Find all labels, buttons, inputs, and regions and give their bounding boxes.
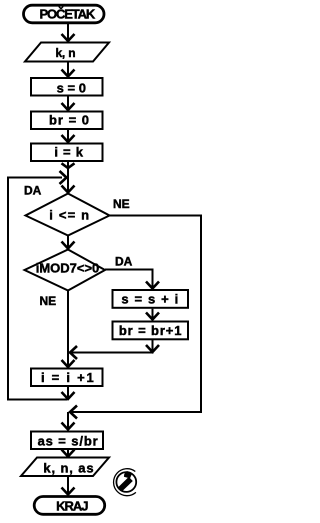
wire input to s=0 xyxy=(62,62,75,77)
svg-text:DA: DA xyxy=(24,184,42,198)
label DA (loop entry) xyxy=(24,184,42,198)
wire s=s+i to br=br+1 xyxy=(146,309,159,320)
process br = 0 xyxy=(31,112,103,130)
svg-text:KRAJ: KRAJ xyxy=(56,499,88,514)
svg-text:NE: NE xyxy=(113,197,130,211)
wire i=i+1 down to loop-back xyxy=(62,386,75,399)
terminal KRAJ xyxy=(34,497,105,515)
wire D2 DA branch to s=s+i xyxy=(105,270,159,289)
svg-text:s = s + i: s = s + i xyxy=(121,292,179,307)
svg-text:br = br+1: br = br+1 xyxy=(119,323,183,338)
wire i=k to loop junction and decision D1 xyxy=(62,162,75,193)
wire start to input xyxy=(62,24,75,41)
svg-text:i = i +1: i = i +1 xyxy=(41,370,95,385)
decision D1 i <= n xyxy=(26,194,110,236)
io parallelogram k, n, as xyxy=(21,458,109,477)
wire s=0 to br=0 xyxy=(62,97,75,111)
label DA (D2 exit right) xyxy=(115,254,133,268)
decision D2 iMOD7<>0 xyxy=(25,250,106,291)
process i = k xyxy=(31,144,103,162)
wire NE branch right and down xyxy=(62,216,202,430)
process as = s/br xyxy=(31,432,103,450)
logo icon circle xyxy=(114,469,137,496)
wire as to output xyxy=(62,450,75,457)
io parallelogram k,n xyxy=(25,43,109,62)
wire output to KRAJ xyxy=(62,477,75,495)
loop-back wire left side xyxy=(8,171,67,400)
wire D2 NE branch down to i=i+1 xyxy=(62,291,75,368)
svg-text:i <= n: i <= n xyxy=(49,208,90,223)
wire br=0 to i=k xyxy=(62,130,75,142)
svg-text:iMOD7<>0: iMOD7<>0 xyxy=(36,260,100,275)
wire br=br+1 down and left to main line xyxy=(70,340,159,359)
logo icon glyph xyxy=(120,471,132,489)
process i = i +1 xyxy=(31,369,103,387)
wire D1 to D2 xyxy=(62,235,75,249)
svg-text:POČETAK: POČETAK xyxy=(40,7,96,22)
process br = br+1 xyxy=(113,322,189,340)
process s = 0 xyxy=(31,78,103,96)
svg-text:as = s/br: as = s/br xyxy=(38,434,99,449)
svg-text:br = 0: br = 0 xyxy=(49,113,90,128)
label NE (D1 exit right) xyxy=(113,197,130,211)
svg-text:k, n, as: k, n, as xyxy=(43,460,94,475)
svg-text:DA: DA xyxy=(115,254,133,268)
label NE (D2 exit down) xyxy=(40,294,57,308)
svg-text:i = k: i = k xyxy=(54,145,83,160)
svg-text:NE: NE xyxy=(40,294,57,308)
terminal POCETAK xyxy=(24,5,105,23)
svg-text:s = 0: s = 0 xyxy=(57,81,86,96)
process s = s + i xyxy=(113,290,189,308)
svg-text:k, n: k, n xyxy=(55,46,75,60)
